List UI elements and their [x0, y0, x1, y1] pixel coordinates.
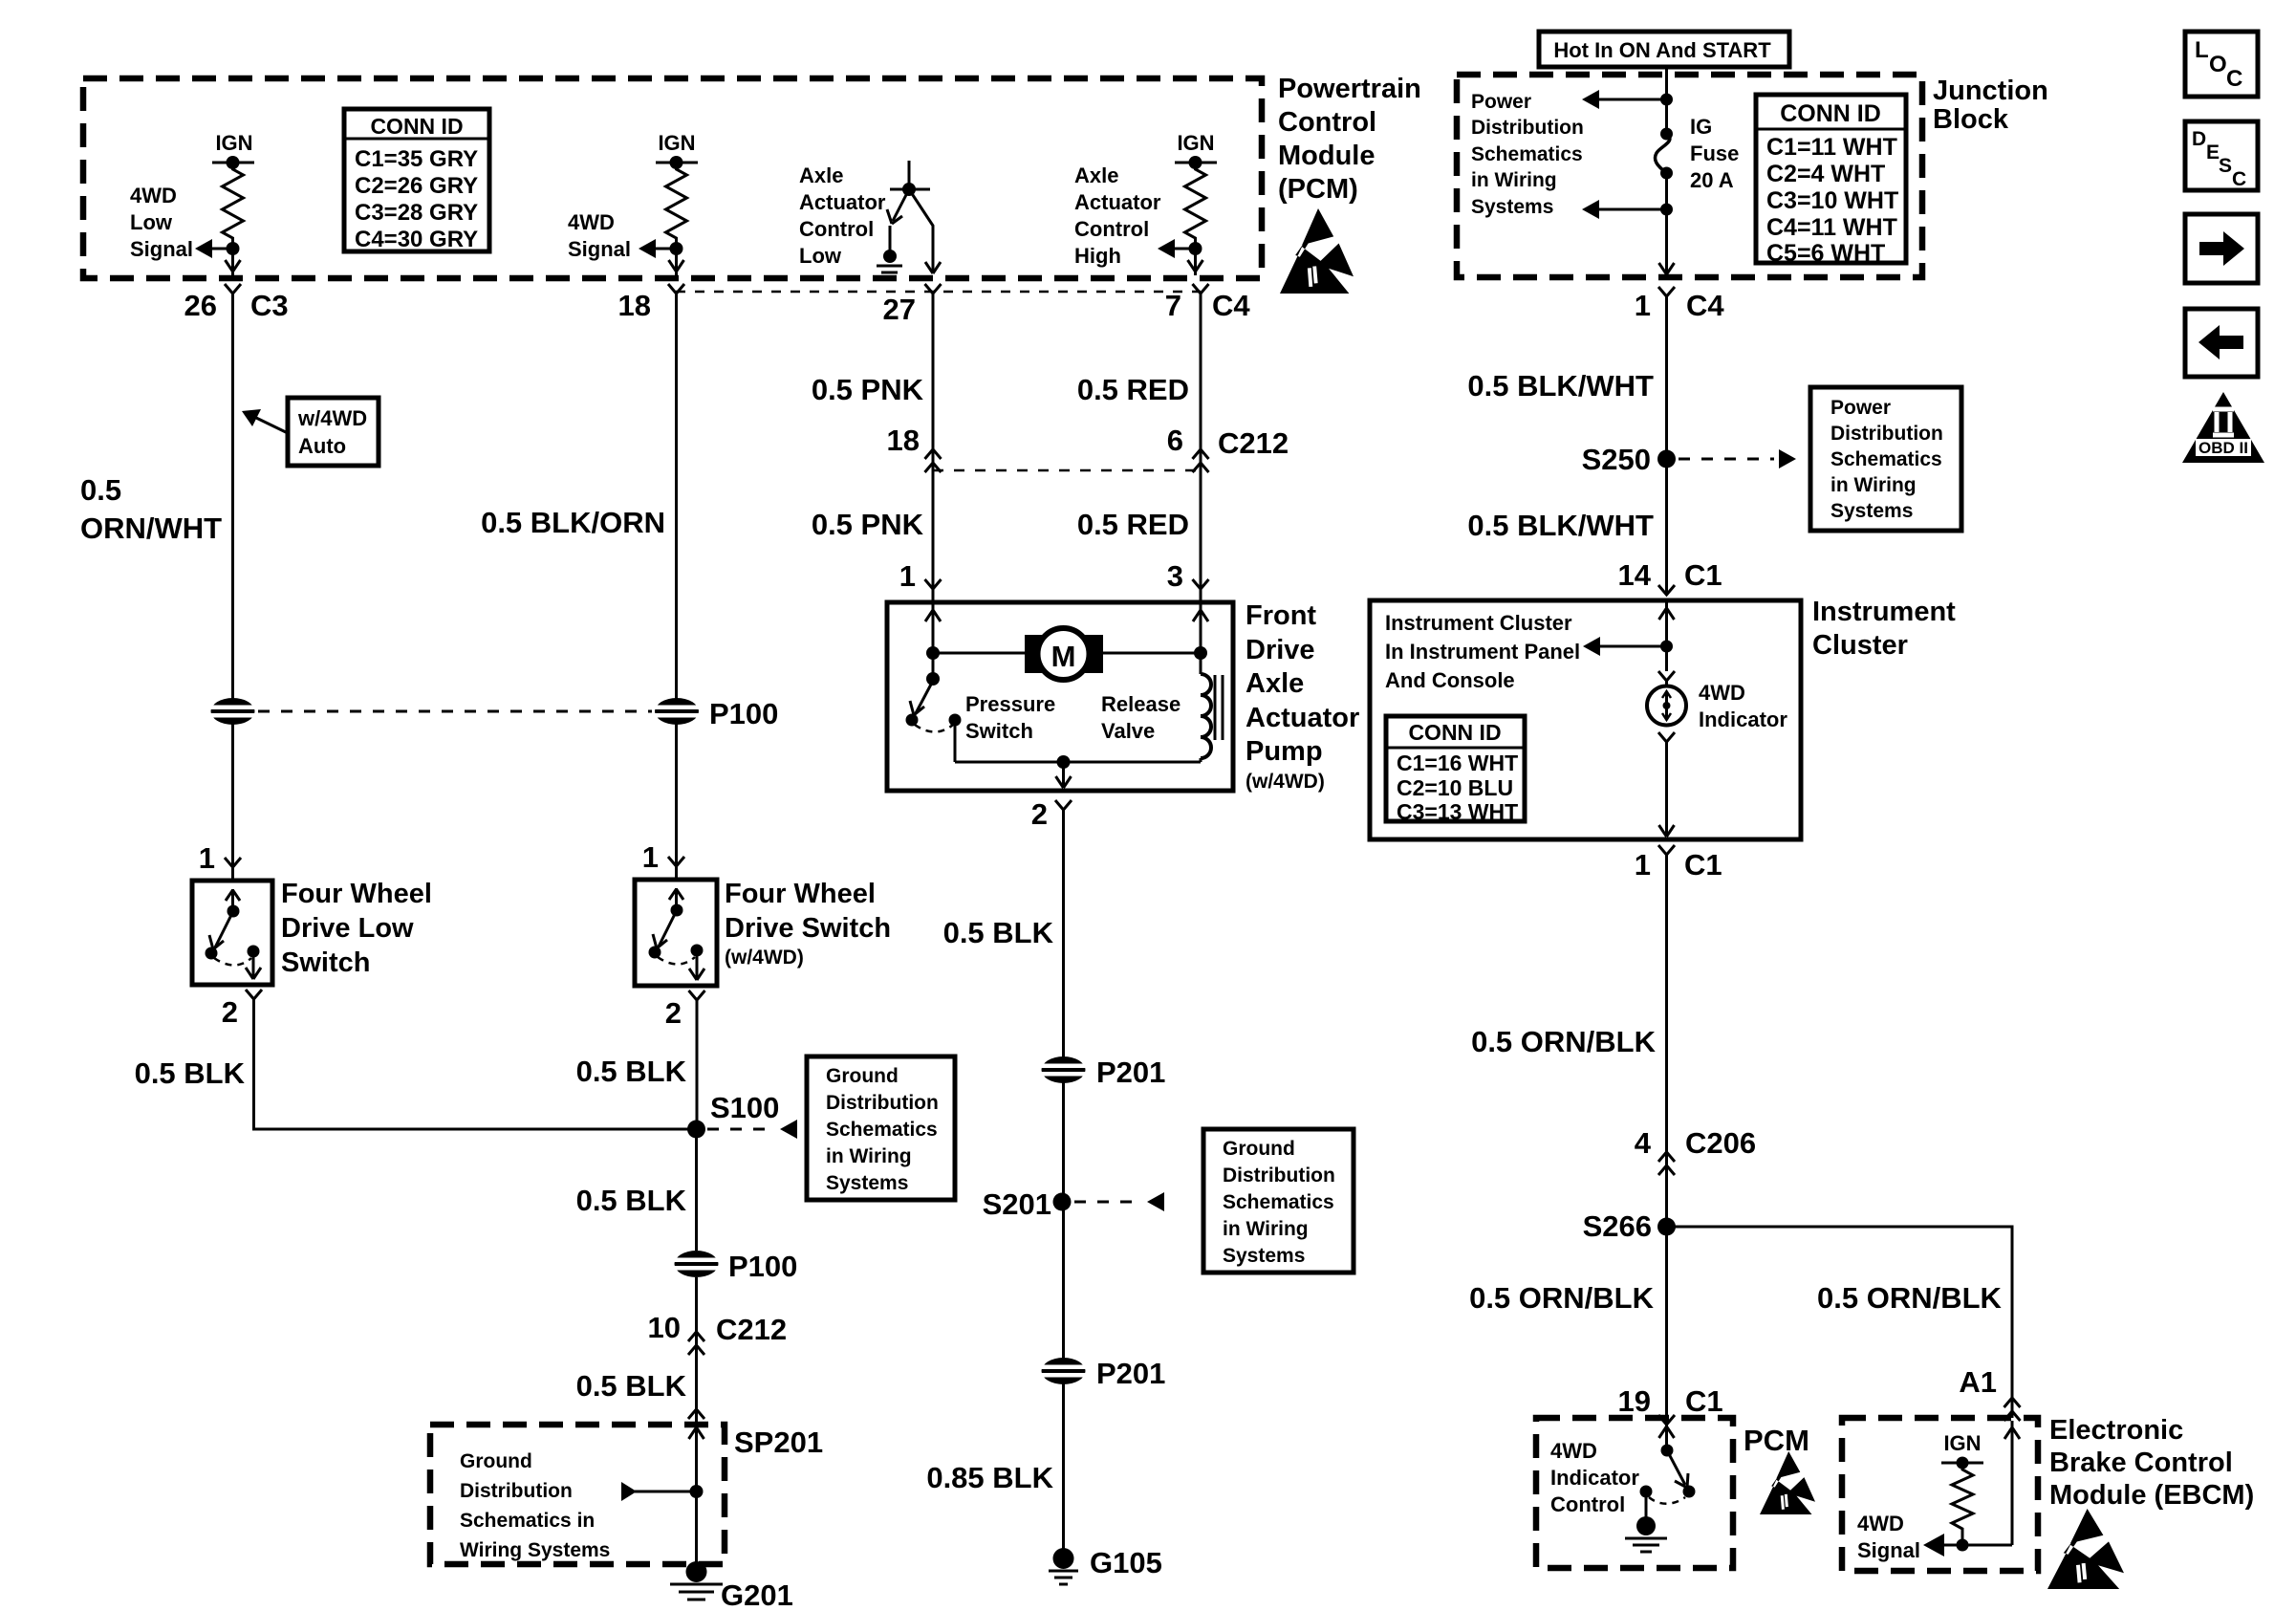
pin 1 chevron (junction block C4)	[1658, 287, 1675, 296]
dashed arrow S201 to reference box	[1074, 1192, 1164, 1211]
svg-text:0.5 BLK: 0.5 BLK	[576, 1055, 687, 1088]
svg-text:Distribution: Distribution	[826, 1092, 939, 1114]
icon OBD II triangle	[2182, 392, 2264, 463]
icon LOC box	[2185, 32, 2258, 97]
wire indicator to cluster exit arrow	[1659, 742, 1675, 837]
svg-text:0.5 PNK: 0.5 PNK	[812, 373, 924, 406]
wire motor line	[933, 652, 1201, 655]
pin 27 connector chevron	[925, 284, 942, 294]
svg-text:IGN: IGN	[1177, 131, 1214, 155]
svg-text:Signal: Signal	[130, 237, 193, 261]
junction dot EBCM	[1957, 1539, 1969, 1552]
svg-text:Schematics: Schematics	[1830, 448, 1942, 470]
svg-text:0.5 BLK: 0.5 BLK	[135, 1056, 246, 1090]
svg-text:Cluster: Cluster	[1812, 630, 1908, 661]
pin 26 connector chevron	[225, 284, 241, 294]
svg-text:Systems: Systems	[826, 1172, 908, 1194]
motor M pump	[1025, 628, 1103, 680]
svg-text:Release: Release	[1101, 692, 1180, 716]
coil Release Valve	[1201, 653, 1223, 762]
svg-text:Drive: Drive	[1245, 635, 1315, 665]
label box Hot In ON And START	[1539, 32, 1789, 67]
wire junction block exit arrow	[1659, 263, 1675, 274]
svg-text:7: 7	[1165, 289, 1181, 322]
svg-text:Auto: Auto	[298, 434, 346, 458]
svg-text:C4: C4	[1212, 289, 1250, 322]
switch 4WD Indicator Control internals	[1625, 1425, 1696, 1552]
svg-text:P201: P201	[1096, 1056, 1165, 1089]
svg-text:IG: IG	[1690, 115, 1712, 139]
ground G105	[1049, 1548, 1078, 1584]
svg-text:(PCM): (PCM)	[1278, 174, 1358, 205]
svg-text:10: 10	[648, 1311, 681, 1344]
svg-text:Indicator: Indicator	[1550, 1466, 1639, 1490]
svg-text:S100: S100	[710, 1091, 779, 1124]
svg-text:Signal: Signal	[1857, 1538, 1920, 1562]
svg-text:Block: Block	[1933, 104, 2009, 135]
splice S250	[1657, 450, 1676, 468]
Instrument Cluster box	[1370, 600, 1801, 839]
svg-text:C: C	[2226, 66, 2242, 92]
svg-text:4WD: 4WD	[1699, 681, 1745, 705]
svg-text:Ground: Ground	[826, 1065, 899, 1087]
svg-text:S250: S250	[1582, 443, 1651, 476]
svg-text:4WD: 4WD	[1550, 1439, 1597, 1463]
svg-text:A1: A1	[1959, 1365, 1997, 1399]
svg-text:Valve: Valve	[1101, 719, 1155, 743]
svg-text:Hot In ON And START: Hot In ON And START	[1553, 38, 1771, 62]
pin 1 chevron (switch2)	[668, 857, 684, 866]
svg-text:Axle: Axle	[1245, 668, 1304, 699]
switch Four Wheel Drive Switch internals	[649, 888, 705, 980]
svg-text:in Wiring: in Wiring	[1471, 169, 1557, 191]
PCM bottom dashed box	[1536, 1418, 1733, 1568]
svg-text:Drive Low: Drive Low	[281, 913, 414, 944]
svg-text:Low: Low	[130, 210, 173, 234]
pin 3 chevron (pump)	[1193, 579, 1209, 589]
svg-text:in Wiring: in Wiring	[1223, 1218, 1309, 1240]
CONN ID table Instrument Cluster	[1386, 716, 1525, 824]
svg-text:0.5 ORN/BLK: 0.5 ORN/BLK	[1469, 1281, 1655, 1315]
svg-text:C206: C206	[1685, 1126, 1756, 1160]
svg-text:Power: Power	[1471, 91, 1531, 113]
svg-text:IGN: IGN	[658, 131, 695, 155]
svg-text:Distribution: Distribution	[1471, 117, 1584, 139]
svg-text:27: 27	[883, 293, 916, 326]
svg-text:Actuator: Actuator	[1245, 703, 1359, 733]
node power distribution tap 2	[1582, 200, 1673, 219]
pin 14 chevron (instrument cluster C1)	[1658, 585, 1675, 595]
connector P100 (wire1 pass-through)	[209, 698, 256, 725]
svg-text:High: High	[1074, 244, 1121, 268]
svg-text:C: C	[2232, 168, 2246, 190]
wire switch1 pin2 to S100	[254, 999, 697, 1129]
svg-text:S: S	[2219, 155, 2232, 177]
svg-text:Switch: Switch	[281, 947, 370, 978]
svg-text:3: 3	[1167, 559, 1183, 593]
label w/4WD Auto box	[288, 398, 379, 466]
svg-text:E: E	[2206, 142, 2220, 163]
svg-text:C3: C3	[250, 289, 289, 322]
pin 18 connector chevron	[668, 284, 684, 294]
wire fuse to exit	[1665, 173, 1668, 274]
svg-text:1: 1	[1635, 848, 1651, 882]
EBCM dashed box	[1842, 1418, 2038, 1571]
svg-text:C4=11 WHT: C4=11 WHT	[1766, 214, 1897, 241]
svg-text:Signal: Signal	[568, 237, 631, 261]
svg-text:Indicator: Indicator	[1699, 708, 1787, 731]
svg-text:C1=11 WHT: C1=11 WHT	[1766, 134, 1897, 161]
svg-text:ORN/WHT: ORN/WHT	[80, 512, 222, 545]
svg-text:Electronic: Electronic	[2049, 1415, 2183, 1446]
svg-text:2: 2	[1031, 797, 1048, 831]
switch Four Wheel Drive Low Switch internals	[206, 889, 262, 979]
pin 2 chevron (switch2)	[689, 991, 705, 1000]
svg-text:Powertrain: Powertrain	[1278, 74, 1421, 104]
svg-text:Schematics: Schematics	[1223, 1191, 1334, 1213]
CONN ID table Junction Block	[1756, 95, 1906, 267]
wire EBCM A1 entry with up arrow	[2004, 1421, 2020, 1545]
wire switch2 pin2 to S100	[696, 1000, 699, 1129]
splice S100	[687, 1121, 705, 1139]
svg-text:4WD: 4WD	[568, 210, 615, 234]
svg-text:Distribution: Distribution	[1223, 1165, 1335, 1186]
svg-text:P100: P100	[709, 697, 778, 730]
junction dot right motor	[1194, 646, 1207, 660]
svg-text:Wiring Systems: Wiring Systems	[460, 1539, 610, 1561]
svg-text:in Wiring: in Wiring	[826, 1145, 912, 1167]
svg-text:2: 2	[665, 996, 682, 1030]
svg-text:0.5 BLK: 0.5 BLK	[576, 1184, 687, 1217]
svg-text:C2=4 WHT: C2=4 WHT	[1766, 161, 1885, 187]
pin A1 double chevron (EBCM)	[2004, 1398, 2021, 1421]
pin 2 chevron (pump)	[1055, 800, 1072, 810]
wire S266 branch to EBCM	[1667, 1227, 2013, 1418]
switch Axle Actuator Control Low (inside PCM)	[883, 161, 930, 263]
svg-text:C2=10 BLU: C2=10 BLU	[1397, 775, 1513, 800]
resistor R1 4WD Low Signal (inside PCM)	[212, 131, 254, 275]
junction dot left motor	[926, 646, 940, 660]
pin 2 chevron (switch1)	[246, 990, 262, 999]
svg-text:C212: C212	[716, 1313, 787, 1346]
svg-text:0.5 RED: 0.5 RED	[1077, 508, 1189, 541]
Four Wheel Drive Low Switch box	[192, 881, 272, 985]
svg-text:Fuse: Fuse	[1690, 142, 1739, 165]
reference box Power Distribution (S250)	[1810, 387, 1961, 531]
svg-text:P201: P201	[1096, 1357, 1165, 1390]
svg-text:0.5 BLK/ORN: 0.5 BLK/ORN	[481, 506, 665, 539]
pin 1 chevron (cluster bottom C1)	[1658, 845, 1675, 855]
svg-text:Schematics in: Schematics in	[460, 1510, 595, 1532]
Junction Block dashed box	[1457, 75, 1922, 277]
svg-text:4WD: 4WD	[130, 184, 177, 207]
ground G201	[670, 1561, 723, 1600]
pin 7 connector chevron	[1193, 284, 1209, 294]
arrow w/4WD Auto to wire	[242, 409, 288, 433]
pin 1 chevron (pump)	[925, 579, 942, 589]
svg-text:Junction: Junction	[1933, 76, 2048, 106]
wire pump pin1 entry with up arrow	[925, 604, 941, 653]
svg-text:And Console: And Console	[1385, 668, 1515, 692]
wire pump pin3 entry with up arrow	[1193, 604, 1208, 653]
reference box Ground Distribution (S201)	[1203, 1129, 1354, 1273]
svg-text:C212: C212	[1218, 426, 1289, 460]
ESD symbol PCM bottom	[1760, 1451, 1815, 1514]
svg-text:1: 1	[199, 841, 215, 875]
svg-text:P100: P100	[728, 1250, 797, 1283]
svg-text:C1: C1	[1684, 558, 1722, 592]
svg-text:Instrument: Instrument	[1812, 597, 1956, 627]
svg-text:C1=35 GRY: C1=35 GRY	[355, 146, 478, 172]
svg-text:0.5 BLK/WHT: 0.5 BLK/WHT	[1467, 369, 1654, 403]
svg-text:SP201: SP201	[734, 1426, 823, 1459]
svg-text:1: 1	[642, 840, 659, 874]
svg-text:Instrument Cluster: Instrument Cluster	[1385, 611, 1572, 635]
svg-text:C1=16 WHT: C1=16 WHT	[1397, 751, 1518, 775]
splice S266	[1657, 1218, 1676, 1236]
svg-text:Four Wheel: Four Wheel	[281, 879, 432, 909]
node Axle Actuator Control High arrow	[1158, 239, 1195, 258]
svg-text:C1: C1	[1684, 848, 1722, 882]
svg-text:Control: Control	[799, 217, 874, 241]
connector P201 (lower)	[1040, 1358, 1087, 1384]
indicator lamp 4WD Indicator	[1647, 681, 1686, 726]
svg-text:C1: C1	[1685, 1384, 1723, 1418]
reference box Ground Distribution (S100)	[807, 1056, 955, 1200]
svg-text:Low: Low	[799, 244, 842, 268]
svg-text:(w/4WD): (w/4WD)	[725, 947, 804, 969]
svg-text:0.5 BLK: 0.5 BLK	[576, 1369, 687, 1403]
svg-text:PCM: PCM	[1744, 1424, 1809, 1457]
svg-text:Module: Module	[1278, 141, 1375, 171]
pin 1 chevron (switch1)	[225, 858, 241, 867]
pin 6 C212 double chevron (wire4)	[1193, 449, 1209, 472]
wire cluster to S266	[1665, 855, 1668, 1227]
svg-text:in Wiring: in Wiring	[1830, 474, 1917, 496]
wire pin18 to Four Wheel Drive Switch	[675, 294, 678, 880]
svg-text:Actuator: Actuator	[799, 190, 886, 214]
wire pin7 to pump pin3	[1200, 294, 1202, 602]
wire exit arrow pin 7	[1188, 260, 1203, 272]
wire EBCM 4WD Signal rail	[1942, 1544, 2012, 1547]
svg-text:Distribution: Distribution	[460, 1480, 573, 1502]
svg-text:Systems: Systems	[1471, 196, 1553, 218]
svg-text:Four Wheel: Four Wheel	[725, 879, 876, 909]
svg-text:Actuator: Actuator	[1074, 190, 1161, 214]
node power distribution tap 1	[1582, 90, 1673, 109]
svg-text:1: 1	[1635, 289, 1651, 322]
node 4WD Signal arrow (EBCM)	[1923, 1534, 1944, 1557]
svg-text:Systems: Systems	[1830, 500, 1913, 522]
resistor R3 Axle Actuator Control High (inside PCM)	[1175, 131, 1217, 275]
CONN ID table PCM	[344, 109, 489, 252]
pin 19 chevron (PCM C1)	[1658, 1415, 1675, 1425]
svg-text:0.5 BLK/WHT: 0.5 BLK/WHT	[1467, 509, 1654, 542]
svg-text:G105: G105	[1090, 1546, 1162, 1579]
svg-text:In Instrument Panel: In Instrument Panel	[1385, 640, 1580, 664]
svg-text:w/4WD: w/4WD	[297, 406, 367, 430]
svg-text:M: M	[1051, 640, 1076, 673]
svg-text:Systems: Systems	[1223, 1245, 1305, 1267]
wire pin27 to pump pin1	[932, 294, 935, 602]
svg-text:Schematics: Schematics	[826, 1119, 938, 1141]
svg-text:0.5 ORN/BLK: 0.5 ORN/BLK	[1817, 1281, 2003, 1315]
icon DESC box	[2185, 121, 2258, 190]
wire instrument cluster entry with up arrow	[1659, 602, 1675, 671]
node instrument panel tap	[1583, 637, 1673, 656]
svg-text:C3=28 GRY: C3=28 GRY	[355, 200, 478, 226]
dashed link P100	[258, 710, 652, 713]
svg-text:S201: S201	[983, 1187, 1051, 1221]
splice S201	[1053, 1193, 1072, 1211]
svg-text:CONN ID: CONN ID	[370, 114, 463, 139]
svg-text:IGN: IGN	[215, 131, 252, 155]
wire S100 to P100	[695, 1129, 698, 1251]
dashed arrow S250 to reference box	[1679, 449, 1796, 468]
pin 4 C206 double chevron	[1658, 1152, 1675, 1175]
svg-text:1: 1	[899, 559, 916, 593]
svg-text:26: 26	[184, 289, 217, 322]
svg-text:CONN ID: CONN ID	[1780, 100, 1881, 127]
Front Drive Axle Actuator Pump box	[887, 602, 1233, 791]
svg-text:O: O	[2209, 52, 2227, 77]
svg-text:18: 18	[618, 289, 651, 322]
ground (PCM internal)	[877, 266, 902, 279]
svg-text:Module (EBCM): Module (EBCM)	[2049, 1480, 2254, 1511]
svg-text:0.85 BLK: 0.85 BLK	[926, 1461, 1053, 1494]
fuse IG Fuse 20 A	[1655, 128, 1673, 180]
svg-text:Distribution: Distribution	[1830, 423, 1943, 445]
connector P100 (wire2 pass-through)	[654, 698, 701, 725]
svg-text:S266: S266	[1583, 1209, 1652, 1243]
svg-text:L: L	[2195, 37, 2209, 63]
dashed link C212	[933, 469, 1201, 472]
svg-text:CONN ID: CONN ID	[1408, 720, 1501, 745]
junction dot SP201	[690, 1485, 704, 1498]
wire P100 to G201	[695, 1277, 698, 1572]
svg-text:Drive Switch: Drive Switch	[725, 913, 891, 944]
svg-text:Front: Front	[1245, 600, 1316, 631]
svg-text:Pressure: Pressure	[965, 692, 1055, 716]
svg-text:0.5 BLK: 0.5 BLK	[943, 916, 1054, 949]
svg-text:Power: Power	[1830, 397, 1891, 419]
svg-text:0.5 ORN/BLK: 0.5 ORN/BLK	[1471, 1025, 1657, 1058]
splice box SP201 dashed	[430, 1425, 725, 1564]
svg-text:Switch: Switch	[965, 719, 1033, 743]
icon left arrow box	[2185, 309, 2258, 377]
svg-text:2: 2	[222, 995, 238, 1029]
Powertrain Control Module (PCM) dashed box	[83, 78, 1262, 278]
svg-text:20 A: 20 A	[1690, 168, 1734, 192]
wire pump bottom rail	[955, 761, 1201, 764]
connector P201 (upper)	[1040, 1056, 1087, 1083]
svg-text:C3=13 WHT: C3=13 WHT	[1397, 799, 1518, 824]
svg-text:Schematics: Schematics	[1471, 143, 1583, 165]
svg-text:19: 19	[1618, 1384, 1651, 1418]
wire pump pin2 exit arrow	[1056, 762, 1072, 788]
chevron above SP201	[688, 1409, 704, 1419]
svg-text:Axle: Axle	[799, 163, 843, 187]
svg-text:C4: C4	[1686, 289, 1724, 322]
Four Wheel Drive Switch box	[635, 880, 717, 986]
svg-text:D: D	[2192, 128, 2206, 150]
switch Pressure Switch internals	[906, 653, 962, 762]
svg-text:Control: Control	[1550, 1492, 1625, 1516]
resistor R4 EBCM (inside)	[1941, 1431, 1983, 1545]
svg-text:Pump: Pump	[1245, 736, 1323, 767]
wire exit arrow pin 26	[226, 260, 241, 272]
svg-text:C2=26 GRY: C2=26 GRY	[355, 173, 478, 199]
wire S266 to PCM pin19	[1665, 1227, 1668, 1431]
connector row dashed line C3/C4	[676, 291, 1201, 294]
dashed arrow S100 to reference box	[707, 1120, 797, 1139]
svg-text:0.5: 0.5	[80, 473, 121, 507]
wire hot feed into junction block	[1665, 67, 1668, 134]
svg-text:C4=30 GRY: C4=30 GRY	[355, 227, 478, 252]
ESD symbol EBCM	[2047, 1509, 2124, 1589]
chevron above indicator	[1658, 671, 1675, 681]
wire pump pin2 down to G105	[1062, 810, 1065, 1558]
svg-text:Control: Control	[1278, 107, 1376, 138]
svg-text:0.5 RED: 0.5 RED	[1077, 373, 1189, 406]
svg-text:(w/4WD): (w/4WD)	[1245, 771, 1325, 793]
wire pin26 to Four Wheel Drive Low Switch	[231, 294, 234, 881]
svg-text:OBD II: OBD II	[2199, 439, 2248, 457]
svg-text:4WD: 4WD	[1857, 1512, 1904, 1535]
icon right arrow box	[2185, 214, 2258, 283]
arrow lead inside SP201	[621, 1482, 696, 1501]
svg-text:4: 4	[1635, 1126, 1652, 1160]
svg-text:C5=6 WHT: C5=6 WHT	[1766, 240, 1885, 267]
wire junction block to instrument cluster	[1665, 296, 1668, 595]
pin 18 C212 double chevron (wire3)	[925, 449, 942, 472]
node 4WD Signal arrow	[639, 239, 676, 258]
ESD symbol PCM	[1280, 208, 1354, 294]
svg-text:6: 6	[1167, 424, 1183, 457]
wire blade to pin 27	[909, 189, 941, 273]
connector P100 (wire2 lower)	[673, 1251, 720, 1277]
svg-text:IGN: IGN	[1943, 1431, 1981, 1455]
svg-text:Ground: Ground	[1223, 1138, 1295, 1160]
svg-text:0.5 PNK: 0.5 PNK	[812, 508, 924, 541]
svg-text:G201: G201	[721, 1578, 793, 1611]
svg-text:Ground: Ground	[460, 1450, 532, 1472]
svg-text:C3=10 WHT: C3=10 WHT	[1766, 187, 1898, 214]
junction dot pump output	[1057, 755, 1071, 769]
resistor R2 4WD Signal (inside PCM)	[656, 131, 698, 275]
svg-text:Control: Control	[1074, 217, 1149, 241]
wire exit arrow pin 18	[669, 260, 684, 272]
svg-text:Axle: Axle	[1074, 163, 1118, 187]
pin 10 connector double chevron C212	[688, 1332, 704, 1355]
svg-text:Brake Control: Brake Control	[2049, 1448, 2233, 1478]
svg-text:14: 14	[1618, 558, 1652, 592]
chevron below indicator	[1658, 732, 1675, 742]
arrow into SP201 wire	[689, 1427, 704, 1439]
node 4WD Low Signal arrow	[195, 239, 232, 258]
svg-text:18: 18	[887, 424, 920, 457]
